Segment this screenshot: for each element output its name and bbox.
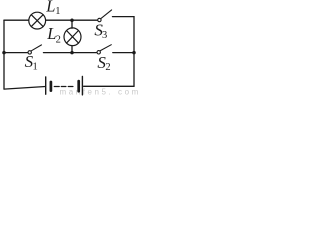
- svg-text:1: 1: [33, 61, 38, 72]
- svg-text:2: 2: [56, 34, 61, 45]
- svg-text:manfen5. com: manfen5. com: [60, 88, 139, 96]
- svg-text:1: 1: [55, 6, 60, 17]
- svg-text:2: 2: [105, 62, 110, 73]
- svg-text:L: L: [45, 0, 55, 16]
- svg-text:3: 3: [102, 30, 107, 41]
